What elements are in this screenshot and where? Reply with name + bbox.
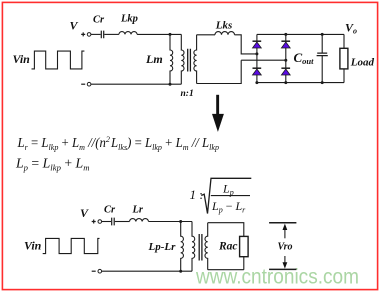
svg-text:Vro: Vro [278,241,293,252]
bridge left column wire [256,34,258,82]
inductor Lm [170,34,173,84]
capacitor Cr [101,31,103,39]
svg-text:1 :: 1 : [190,187,203,202]
junction node Cout bottom [321,81,324,84]
wire Lr to primary (bottom) [149,221,193,223]
svg-text:Lr: Lr [132,204,144,215]
wire Lks to bridge left input [235,35,257,54]
inductor Lkp [119,32,137,35]
plus terminal mark (bottom) [92,220,96,224]
wire secondary bottom to bridge right input [197,60,286,83]
transformer T2 core [199,234,202,261]
junction node bottom of Lp-Lr [179,270,182,273]
measurement Vro bottom bar [269,268,296,270]
wire terminal to Cr (bottom) [102,221,111,223]
resistor Load [340,48,348,69]
inductor Lks [215,32,235,35]
transformer T2 secondary winding [205,223,208,270]
capacitor Cout [317,53,328,56]
svg-text:Cout: Cout [294,50,315,66]
wire bottom rail [91,83,181,85]
bridge right column wire [285,34,287,82]
junction node top of Lp-Lr [179,220,182,223]
minus terminal mark [81,83,85,85]
svg-text:V: V [80,206,89,220]
measurement Vro arrows [283,224,288,269]
transformer T1 secondary winding [194,35,197,84]
junction node bridge left bottom [255,81,258,84]
diode D3 lower-left [253,68,262,75]
source Vin square wave [32,51,85,69]
svg-text:Lp − Lr: Lp − Lr [211,199,246,215]
svg-text:Lp-Lr: Lp-Lr [148,241,177,253]
resistor Load wires [343,34,345,82]
transformer T1 primary winding [181,34,184,84]
svg-text:Lr = Llkp + Lm //(n2Llks) = Ll: Lr = Llkp + Lm //(n2Llks) = Llkp + Lm //… [17,134,219,152]
resistor Rac [240,236,249,256]
inductor Lr [130,219,149,222]
svg-text:n:1: n:1 [181,89,194,99]
svg-text:Lks: Lks [215,20,233,32]
bridge bottom rail [257,82,344,84]
svg-text:V: V [70,19,79,33]
wire Lkp to primary [137,33,181,35]
terminal node circle (+) [87,33,91,37]
diode D1 upper-left [253,41,262,48]
measurement Vro top bar [269,222,296,224]
capacitor Cr (bottom) [112,218,115,226]
svg-text:Lm: Lm [145,52,163,66]
wire Cr to Lkp [104,33,119,35]
svg-text:Vin: Vin [13,52,31,66]
transformer T1 core [188,49,191,72]
svg-text:Lp: Lp [222,182,234,198]
junction node bridge right bottom [284,81,287,84]
junction node Cout top [321,33,324,36]
svg-text:Cr: Cr [104,204,116,215]
wire bottom rail (bottom circuit) [102,270,192,272]
svg-text:Load: Load [350,57,375,69]
capacitor Cout wires [321,34,323,82]
wire secondary loop (bottom) [208,223,244,270]
svg-text:Lp = Llkp + Lm: Lp = Llkp + Lm [15,156,90,173]
svg-text:Rac: Rac [218,240,238,252]
svg-text:Vo: Vo [345,21,357,36]
svg-text:Lkp: Lkp [120,14,138,25]
junction node bottom of Lm [169,83,172,86]
svg-text:Vin: Vin [24,239,42,253]
bridge top rail [257,33,344,35]
transformer T2 ratio label 1:sqrt(Lp/(Lp-Lr)) [190,182,247,215]
arrow (top circuit transforms to bottom circuit) [212,95,224,132]
source Vin square wave (bottom circuit) [43,238,100,253]
terminal node circle bottom(+) [98,220,102,224]
minus terminal mark (bottom) [92,270,96,272]
junction node bridge right top [284,33,287,36]
junction node bridge left mid [255,52,258,55]
svg-text:Cr: Cr [93,15,105,26]
transformer T2 primary winding [192,222,195,272]
plus terminal mark [81,32,85,36]
junction node bridge right mid [284,59,287,62]
inductor Lp-Lr [181,222,184,272]
terminal node circle (-) [87,82,91,86]
wire Cr to Lr [115,221,130,223]
diode D4 lower-right [281,68,290,75]
wire terminal to Cr [91,33,101,35]
wire secondary top to Lks [197,34,215,36]
terminal node circle bottom(-) [98,269,102,273]
junction node top of Lm [169,33,172,36]
diode D2 upper-right [281,41,290,48]
